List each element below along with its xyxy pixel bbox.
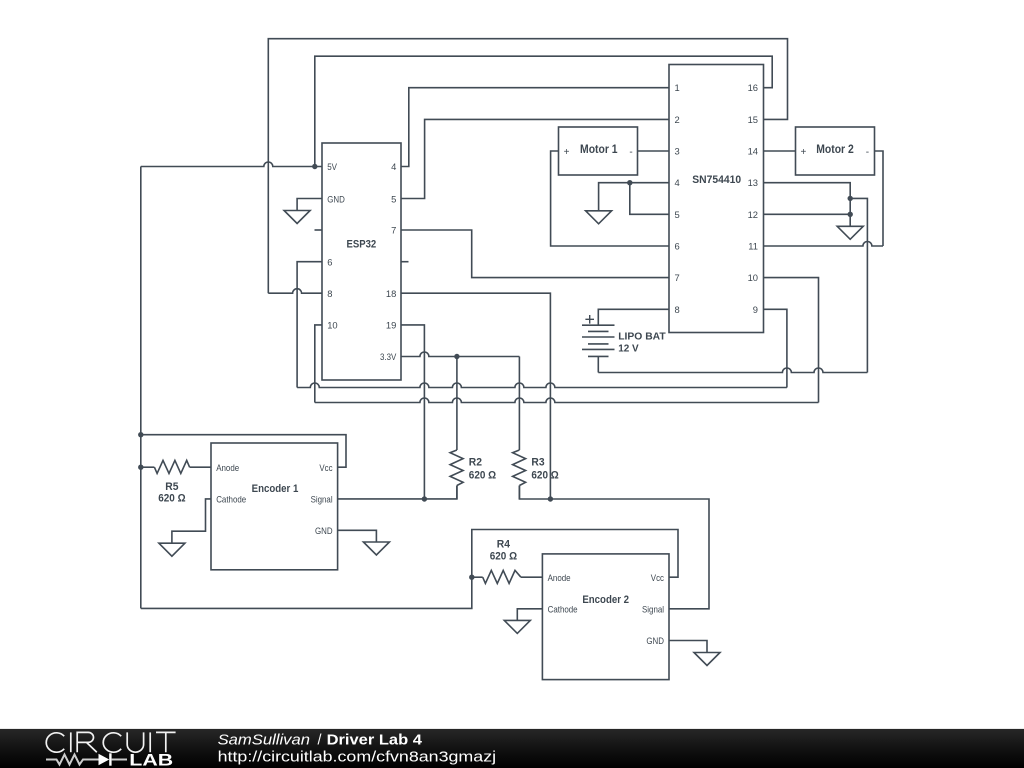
svg-text:1: 1 bbox=[675, 82, 680, 93]
wire Encoder2 GND pin to ground bbox=[669, 641, 707, 653]
ground Encoder1 cathode ground symbol bbox=[159, 543, 185, 556]
logo resistor-diode glyph bbox=[46, 755, 99, 765]
svg-text:+: + bbox=[800, 147, 806, 158]
svg-text:620 Ω: 620 Ω bbox=[469, 470, 496, 482]
svg-text:11: 11 bbox=[748, 241, 758, 252]
ground Motor2 side ground symbol bbox=[837, 226, 863, 239]
svg-text:13: 13 bbox=[748, 177, 758, 188]
svg-text:10: 10 bbox=[748, 272, 758, 283]
resistor R2 620ohm bbox=[450, 450, 463, 486]
wire Motor2 minus to SN754410 pin11 bbox=[875, 151, 884, 246]
wire Encoder1 GND pin to ground bbox=[338, 530, 377, 542]
pin ESP32 left tick bbox=[315, 229, 323, 231]
svg-text:LIPO BAT: LIPO BAT bbox=[618, 330, 666, 342]
wire bottom 5V run to Encoder 2 area bbox=[141, 530, 678, 609]
svg-text:19: 19 bbox=[386, 320, 396, 331]
wire 5V rail to ESP32 5V pin bbox=[141, 162, 322, 167]
svg-text:Motor 2: Motor 2 bbox=[816, 144, 854, 156]
svg-text:Cathode: Cathode bbox=[216, 494, 246, 505]
svg-text:Driver Lab 4: Driver Lab 4 bbox=[327, 733, 422, 749]
node junction R4 tap bbox=[469, 575, 474, 580]
svg-text:LAB: LAB bbox=[129, 750, 173, 768]
svg-text:6: 6 bbox=[327, 256, 332, 267]
svg-text:16: 16 bbox=[748, 82, 758, 93]
node junction pin4-pin5 tie bbox=[627, 180, 632, 185]
wire signal2 run R3 to Encoder2 Signal bbox=[519, 486, 709, 609]
motor Motor2 box bbox=[796, 127, 875, 175]
node junction battery-minus tap bbox=[848, 196, 853, 201]
wire ESP32 pin4 to SN754410 pin1 bbox=[401, 88, 669, 167]
resistor R3 620ohm bbox=[513, 450, 526, 486]
wire Motor1 plus to SN754410 pin6 bbox=[551, 151, 669, 246]
svg-text:620 Ω: 620 Ω bbox=[531, 470, 558, 482]
svg-text:SamSullivan: SamSullivan bbox=[218, 733, 310, 749]
svg-text:R5: R5 bbox=[165, 481, 178, 493]
svg-text:Encoder 2: Encoder 2 bbox=[582, 594, 629, 606]
wire Encoder2 Cathode to ground bbox=[517, 609, 542, 621]
wire bus2 horizontal run bbox=[315, 398, 819, 403]
op-amp ESP32 box bbox=[322, 143, 401, 380]
wire bus2 rise to SN754410 pin10 bbox=[764, 278, 819, 403]
svg-text:http://circuitlab.com/cfvn8an3: http://circuitlab.com/cfvn8an3gmazj bbox=[218, 749, 497, 765]
svg-text:6: 6 bbox=[675, 241, 680, 252]
svg-text:GND: GND bbox=[327, 193, 345, 204]
wire R3 top lead bbox=[518, 357, 520, 451]
svg-text:R2: R2 bbox=[469, 457, 482, 469]
wire bus1 horizontal run bbox=[297, 383, 787, 388]
svg-text:R3: R3 bbox=[531, 457, 544, 469]
svg-text:12: 12 bbox=[748, 209, 758, 220]
wire bus1 rise to SN754410 pin9 bbox=[764, 309, 787, 387]
resistor R5 620ohm bbox=[141, 466, 155, 468]
svg-text:Motor 1: Motor 1 bbox=[580, 144, 618, 156]
wire battery minus stub bbox=[597, 356, 599, 372]
ground Motor1 side ground symbol bbox=[586, 211, 612, 224]
wire R2 top lead bbox=[456, 357, 458, 451]
svg-text:4: 4 bbox=[675, 177, 680, 188]
wire ESP32 pin18 down to signal2 node bbox=[401, 293, 550, 499]
wire ESP32 pin10 to bus bbox=[315, 325, 322, 403]
wire ESP32 pin6 to bus bbox=[297, 262, 322, 388]
ground Encoder1 GND symbol bbox=[363, 542, 389, 555]
svg-text:/: / bbox=[318, 733, 322, 749]
svg-text:8: 8 bbox=[675, 304, 680, 315]
svg-text:620 Ω: 620 Ω bbox=[158, 493, 185, 505]
wire ESP32 pin19 down to signal1 node bbox=[401, 325, 424, 499]
svg-text:SN754410: SN754410 bbox=[692, 174, 741, 186]
ground Encoder2 cathode ground symbol bbox=[504, 620, 530, 633]
battery LIPO BAT 12V bbox=[582, 324, 615, 326]
svg-text:-: - bbox=[866, 147, 869, 158]
svg-text:GND: GND bbox=[646, 635, 664, 646]
svg-text:7: 7 bbox=[675, 272, 680, 283]
wire ESP32 pin7 to SN754410 pin7 bbox=[401, 230, 669, 278]
wire SN754410 pin4 to ground bbox=[599, 183, 669, 211]
svg-text:Vcc: Vcc bbox=[319, 462, 332, 473]
svg-text:8: 8 bbox=[327, 288, 332, 299]
wire Motor1 minus to SN754410 pin3 bbox=[638, 150, 670, 152]
svg-text:5: 5 bbox=[391, 193, 396, 204]
svg-text:Anode: Anode bbox=[548, 572, 571, 583]
svg-text:5V: 5V bbox=[327, 161, 337, 172]
svg-text:Cathode: Cathode bbox=[548, 604, 578, 615]
op-amp Encoder1 box bbox=[211, 443, 338, 570]
node 5V junction at ESP32 5V pin bbox=[312, 164, 317, 169]
svg-text:15: 15 bbox=[748, 114, 758, 125]
svg-text:GND: GND bbox=[315, 525, 333, 536]
svg-text:7: 7 bbox=[391, 225, 396, 236]
svg-text:5: 5 bbox=[675, 209, 680, 220]
svg-text:Signal: Signal bbox=[311, 494, 333, 505]
wire pin4 junction to pin5 bbox=[630, 183, 669, 215]
wire Encoder1 Cathode to ground bbox=[172, 499, 211, 543]
svg-text:Signal: Signal bbox=[642, 604, 664, 615]
svg-text:-: - bbox=[629, 147, 632, 158]
wire ESP32 GND pin to ground bbox=[297, 199, 322, 211]
svg-text:620 Ω: 620 Ω bbox=[490, 551, 517, 563]
svg-text:4: 4 bbox=[391, 161, 396, 172]
svg-text:R4: R4 bbox=[497, 539, 511, 551]
motor Motor1 box bbox=[559, 127, 638, 175]
svg-text:18: 18 bbox=[386, 288, 396, 299]
wire 5V rail left vertical bbox=[140, 167, 142, 609]
node junction Encoder1 Vcc tap bbox=[138, 432, 143, 437]
label battery plus sign bbox=[585, 315, 594, 324]
svg-text:3.3V: 3.3V bbox=[380, 351, 397, 362]
svg-text:Encoder 1: Encoder 1 bbox=[252, 483, 299, 495]
svg-text:12 V: 12 V bbox=[618, 343, 639, 355]
ground Encoder2 GND symbol bbox=[694, 653, 720, 666]
svg-text:+: + bbox=[564, 147, 570, 158]
wire battery plus to SN754410 pin8 bbox=[598, 309, 669, 325]
wire tie to SN754410 pin12 bbox=[764, 213, 851, 215]
footer bar bbox=[0, 729, 1024, 768]
wire SN754410 pin14 to Motor2 plus bbox=[764, 150, 796, 152]
ground ESP32 GND symbol bbox=[284, 211, 310, 224]
svg-text:Vcc: Vcc bbox=[651, 572, 664, 583]
svg-text:Anode: Anode bbox=[216, 462, 239, 473]
wire ESP32 pin8 to SN754410 pin15 bbox=[268, 289, 322, 294]
node junction signal1 bbox=[422, 496, 427, 501]
node junction R5 tap bbox=[138, 465, 143, 470]
pin ESP32 right tick bbox=[401, 261, 409, 263]
op-amp SN754410 box bbox=[669, 65, 764, 333]
wire battery minus run bbox=[850, 198, 867, 372]
op-amp Encoder2 box bbox=[542, 554, 669, 680]
svg-text:3: 3 bbox=[675, 146, 680, 157]
svg-text:ESP32: ESP32 bbox=[347, 238, 377, 250]
svg-text:9: 9 bbox=[753, 304, 758, 315]
node junction 3.3V R2 tap bbox=[454, 354, 459, 359]
wire ESP32 pin5 to SN754410 pin2 bbox=[401, 119, 669, 198]
wire SN754410 pin13 to tie bbox=[764, 183, 851, 227]
wire Encoder1 Vcc loop bbox=[141, 435, 346, 468]
resistor R4 620ohm bbox=[472, 576, 483, 578]
node junction pin12 tie bbox=[848, 212, 853, 217]
svg-text:14: 14 bbox=[748, 146, 758, 157]
wire 5V to SN754410 pin 16 bbox=[315, 56, 772, 166]
node junction signal2 bbox=[548, 496, 553, 501]
wire ESP32 3.3V rail bbox=[401, 352, 519, 357]
svg-text:2: 2 bbox=[675, 114, 680, 125]
wire signal1 run Encoder1 Signal to R2 bbox=[338, 486, 457, 499]
svg-text:10: 10 bbox=[327, 320, 337, 331]
logo CIRCUIT wordmark bbox=[46, 733, 64, 752]
